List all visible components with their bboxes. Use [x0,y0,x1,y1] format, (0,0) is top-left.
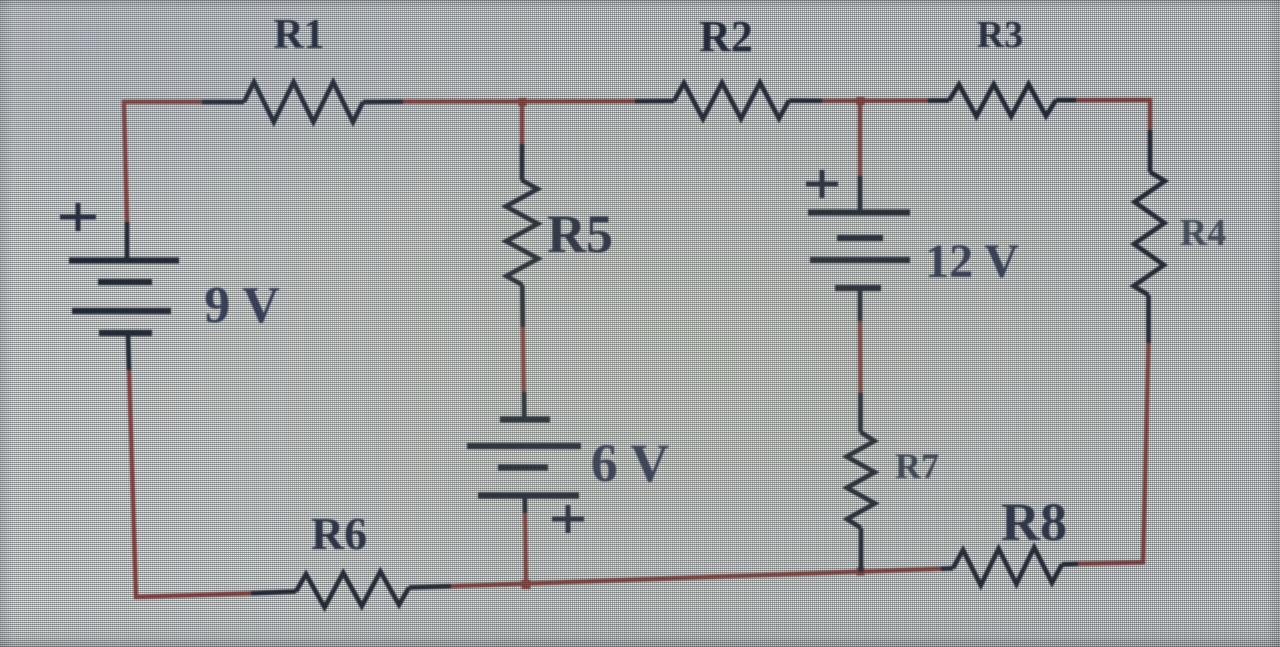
wire top right-of-R2 [822,98,928,103]
svg-text:12 V: 12 V [925,235,1019,288]
node junction R5 top [519,98,527,106]
resistor R7 [847,432,875,528]
battery V2 6V plates [467,420,581,496]
wire 12V branch top [858,101,862,178]
wire R5 branch top [520,101,524,144]
resistor R3 leads [928,98,1076,103]
wire 12V battery to R7 [858,320,863,393]
svg-text:6 V: 6 V [591,433,670,493]
battery V1 9V top lead stub [127,222,129,370]
svg-text:R6: R6 [311,508,367,559]
resistor R6 [296,572,409,608]
battery V2 plus sign [552,505,584,533]
battery V2 6V lead stubs [524,392,525,513]
resistor R5 [506,180,538,285]
svg-text:R7: R7 [895,446,939,486]
wire R5 to 6V battery [523,326,524,393]
node junction R7 bottom [857,568,865,576]
wire top middle [403,99,635,104]
resistor R4 [1134,172,1165,295]
battery V3 plus sign [806,170,838,198]
resistor R5 leads [520,144,525,327]
resistor R7 leads [858,393,863,572]
wire 6V battery to bottom node [525,512,526,585]
wire top-left corner run [124,102,202,224]
resistor R4 leads [1149,130,1151,343]
resistor R8 leads [941,564,1078,569]
resistor R2 leads [635,98,822,103]
battery V1 9V plates [69,261,179,334]
battery V3 12V lead stubs [858,176,863,321]
resistor R2 [674,83,789,119]
battery V3 12V plates [808,213,910,289]
node junction 6V bottom [522,580,531,589]
battery V1 plus sign [60,203,96,231]
wire top far-right and right vertical upper [1076,100,1150,130]
wire bottom middle run [451,569,944,587]
resistor R1 [244,82,363,122]
svg-text:R5: R5 [547,204,613,264]
wire left vertical lower and bottom-left run [129,368,251,597]
wire bottom-right run and right vertical lower [1078,343,1149,564]
resistor R3 [949,84,1056,116]
resistor R6 leads [251,586,451,593]
resistor R1 leads [202,99,403,104]
svg-text:R3: R3 [977,14,1023,56]
svg-text:9 V: 9 V [204,277,280,334]
svg-text:R4: R4 [1180,212,1226,254]
svg-text:R1: R1 [273,12,324,58]
svg-text:R2: R2 [699,12,753,61]
node junction 12V top [857,97,865,105]
svg-text:R8: R8 [1001,492,1067,552]
resistor R8 [953,547,1062,585]
